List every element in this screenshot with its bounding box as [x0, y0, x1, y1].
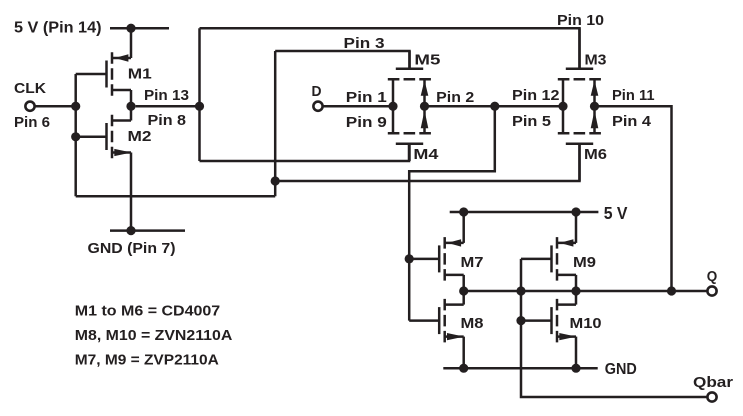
svg-text:GND: GND [605, 361, 637, 378]
svg-text:D: D [312, 83, 322, 100]
svg-text:Pin 2: Pin 2 [436, 89, 474, 106]
wire CLKbar top run to M3 gate [200, 28, 580, 68]
wire CLKbar bottom run to M4 gate [200, 144, 410, 161]
svg-text:Pin 12: Pin 12 [512, 87, 560, 104]
svg-text:Pin 3: Pin 3 [344, 35, 385, 52]
svg-text:Pin 5: Pin 5 [512, 113, 552, 130]
label CLK [14, 80, 46, 97]
label Pin 6 [14, 114, 50, 131]
label Pin 8 [148, 112, 187, 129]
label Qbar [693, 374, 733, 391]
svg-text:GND (Pin 7): GND (Pin 7) [88, 240, 176, 257]
svg-text:Pin 11: Pin 11 [612, 87, 655, 104]
svg-text:CLK: CLK [14, 80, 46, 97]
node TG2 left terminal [558, 102, 567, 111]
wire M7 source to 5V [462, 212, 465, 243]
transistor M10 [552, 299, 577, 343]
wire M10 source to ground [575, 337, 578, 369]
wire middle net down to latch input [409, 106, 495, 320]
svg-text:M1: M1 [128, 66, 153, 83]
wire M8 source to ground [462, 337, 465, 369]
node TG1 left terminal [388, 102, 397, 111]
node TG1 right terminal [420, 102, 429, 111]
label M6 [584, 146, 607, 163]
svg-text:M8: M8 [461, 315, 484, 332]
svg-text:M8, M10 = ZVN2110A: M8, M10 = ZVN2110A [75, 327, 233, 344]
output terminal Qbar [707, 392, 716, 401]
label D [312, 83, 322, 100]
label 5 V [604, 203, 628, 223]
wire TG2 terminals [563, 79, 598, 133]
wire CLK run to TG column [76, 195, 276, 198]
svg-text:Pin 10: Pin 10 [557, 12, 604, 29]
node M9/M10 drain junction [571, 286, 580, 295]
node M2 source / GND junction [126, 226, 135, 235]
label 5 V (Pin 14) [14, 19, 102, 36]
wire TG1 output to TG2 input [425, 105, 564, 108]
label M4 [413, 146, 439, 163]
svg-text:M5: M5 [414, 51, 441, 68]
label Pin 13 [144, 87, 189, 104]
transistor M7 [439, 237, 464, 281]
wire inverter output (Pin 13/Pin 8) to CLKbar column [136, 105, 200, 108]
transistor M5 [388, 51, 431, 79]
node CLKbar column junction [195, 102, 204, 111]
node M7/M8 drain junction [459, 286, 468, 295]
label Pin 5 [512, 113, 552, 130]
svg-text:Pin 8: Pin 8 [148, 112, 187, 129]
label M3 [585, 51, 607, 68]
transistor M1 [107, 52, 132, 96]
svg-text:Pin 13: Pin 13 [144, 87, 189, 104]
node TG2 right terminal [590, 102, 599, 111]
svg-text:Pin 9: Pin 9 [346, 114, 387, 131]
node CLK / M2 gate junction [71, 132, 80, 141]
wire M7 gate lead [409, 258, 439, 261]
svg-text:M6: M6 [584, 146, 607, 163]
output terminal Q [707, 286, 716, 295]
wire M9 source to 5V [575, 212, 578, 243]
wire M9 drain to output node [575, 275, 578, 305]
wire CLKbar column vertical [198, 28, 201, 161]
wire M8 gate lead [409, 319, 439, 322]
wire M2 source down to ground [130, 153, 133, 231]
label Pin 3 [344, 35, 385, 52]
label GND (Pin 7) [88, 240, 176, 257]
node M10 source / GND junction [571, 364, 580, 373]
label M9 [573, 254, 596, 271]
wire cross-couple column to Qbar [521, 259, 707, 397]
label M2 [128, 128, 152, 145]
power rail 5 V (Pin 14) [110, 27, 169, 30]
value label M7, M9 = ZVP2110A [75, 352, 219, 369]
node Q column junction [667, 286, 676, 295]
label M1 [128, 66, 153, 83]
transistor M3 [558, 28, 601, 79]
label Q [707, 268, 718, 285]
svg-text:5 V (Pin 14): 5 V (Pin 14) [14, 19, 102, 36]
node CLK / gate column junction [71, 102, 80, 111]
node M8 source / GND junction [459, 364, 468, 373]
wire M10 gate lead [521, 319, 552, 322]
svg-text:M3: M3 [585, 51, 607, 68]
svg-text:M4: M4 [413, 146, 439, 163]
wire 5V rail down to M1 source [130, 28, 133, 58]
wire M9 gate lead [521, 258, 552, 261]
wire M7 drain to output node [462, 275, 465, 305]
node latch input / M7 gate junction [405, 254, 414, 263]
transistor M6 [558, 133, 601, 181]
value label M8, M10 = ZVN2110A [75, 327, 233, 344]
ground rail GND (latch) [443, 367, 597, 370]
transistor M2 [107, 115, 132, 159]
label M10 [570, 315, 602, 332]
node cross-couple / M10 gate junction [516, 316, 525, 325]
transistor M9 [552, 237, 577, 281]
svg-text:Pin 1: Pin 1 [346, 89, 388, 106]
wire CLK vertical up to Pin 3 wire [274, 51, 277, 196]
svg-text:M7: M7 [461, 254, 484, 271]
node inverter output dot [126, 102, 135, 111]
input terminal D (Pin 1/Pin 9) [313, 102, 322, 111]
wire Pin 3 to M5 gate [275, 51, 409, 69]
label M8 [461, 315, 484, 332]
svg-text:Q: Q [707, 268, 718, 285]
wire M1 gate lead [76, 73, 107, 76]
wire TG1 terminals [393, 79, 428, 133]
wire M2 gate lead [76, 136, 107, 139]
node CLK / M6 gate branch junction [271, 176, 280, 185]
node 5V / M9 source junction [571, 207, 580, 216]
transistor M4 [388, 133, 431, 161]
label M7 [461, 254, 484, 271]
power rail 5 V (latch) [450, 211, 599, 214]
node cross-couple junction [516, 286, 525, 295]
wire to Q terminal [672, 290, 708, 293]
wire CLK input to gate column [35, 105, 76, 108]
label GND [605, 361, 637, 378]
value label M1 to M6 = CD4007 [75, 303, 220, 320]
svg-text:Pin 6: Pin 6 [14, 114, 50, 131]
wire CLK gate column vertical [74, 74, 77, 196]
label M5 [414, 51, 441, 68]
input terminal CLK (Pin 6) [25, 102, 34, 111]
svg-text:Pin 4: Pin 4 [612, 113, 652, 130]
label Pin 9 [346, 114, 387, 131]
label Pin 12 [512, 87, 560, 104]
ground rail GND (Pin 7) [110, 229, 185, 232]
svg-text:M1 to M6 = CD4007: M1 to M6 = CD4007 [75, 303, 220, 320]
transistor M8 [439, 299, 464, 343]
svg-text:M9: M9 [573, 254, 596, 271]
label Pin 10 [557, 12, 604, 29]
svg-text:M10: M10 [570, 315, 602, 332]
wire CLK to M6 gate [275, 144, 579, 181]
node 5V rail / M1 source junction [126, 24, 135, 33]
svg-text:Qbar: Qbar [693, 374, 733, 391]
label Pin 11 [612, 87, 655, 104]
wire M1 drain to output node [130, 90, 133, 121]
label Pin 4 [612, 113, 652, 130]
node middle net / latch branch junction [490, 102, 499, 111]
svg-text:M7, M9 = ZVP2110A: M7, M9 = ZVP2110A [75, 352, 219, 369]
label Pin 2 [436, 89, 474, 106]
wire D input to TG1 [323, 105, 393, 108]
node 5V / M7 source junction [459, 207, 468, 216]
label Pin 1 [346, 89, 388, 106]
svg-text:M2: M2 [128, 128, 152, 145]
wire latch node to Q output [464, 290, 672, 293]
wire TG2 output to Q column [595, 106, 672, 291]
svg-text:5 V: 5 V [604, 203, 628, 223]
